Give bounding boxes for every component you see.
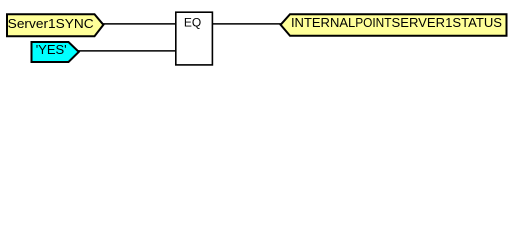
- wire from EQ output to INTERNALPOINTSERVER1STATUS: [212, 23, 281, 25]
- output tag INTERNALPOINTSERVER1STATUS: [281, 14, 507, 36]
- svg-text:INTERNAL: INTERNAL: [291, 15, 355, 30]
- function block EQ: [176, 12, 213, 65]
- svg-text:EQ: EQ: [184, 15, 201, 29]
- svg-text:'YES': 'YES': [36, 42, 67, 57]
- wire from Server1SYNC to EQ input 1: [103, 23, 176, 25]
- svg-text:SERVER1STATUS: SERVER1STATUS: [392, 15, 503, 30]
- wire from 'YES' constant to EQ input 2: [78, 50, 176, 52]
- constant tag 'YES': [32, 42, 79, 62]
- svg-text:POINT: POINT: [355, 15, 391, 30]
- svg-text:Server1SYNC: Server1SYNC: [8, 16, 94, 31]
- input tag Server1SYNC: [7, 14, 103, 36]
